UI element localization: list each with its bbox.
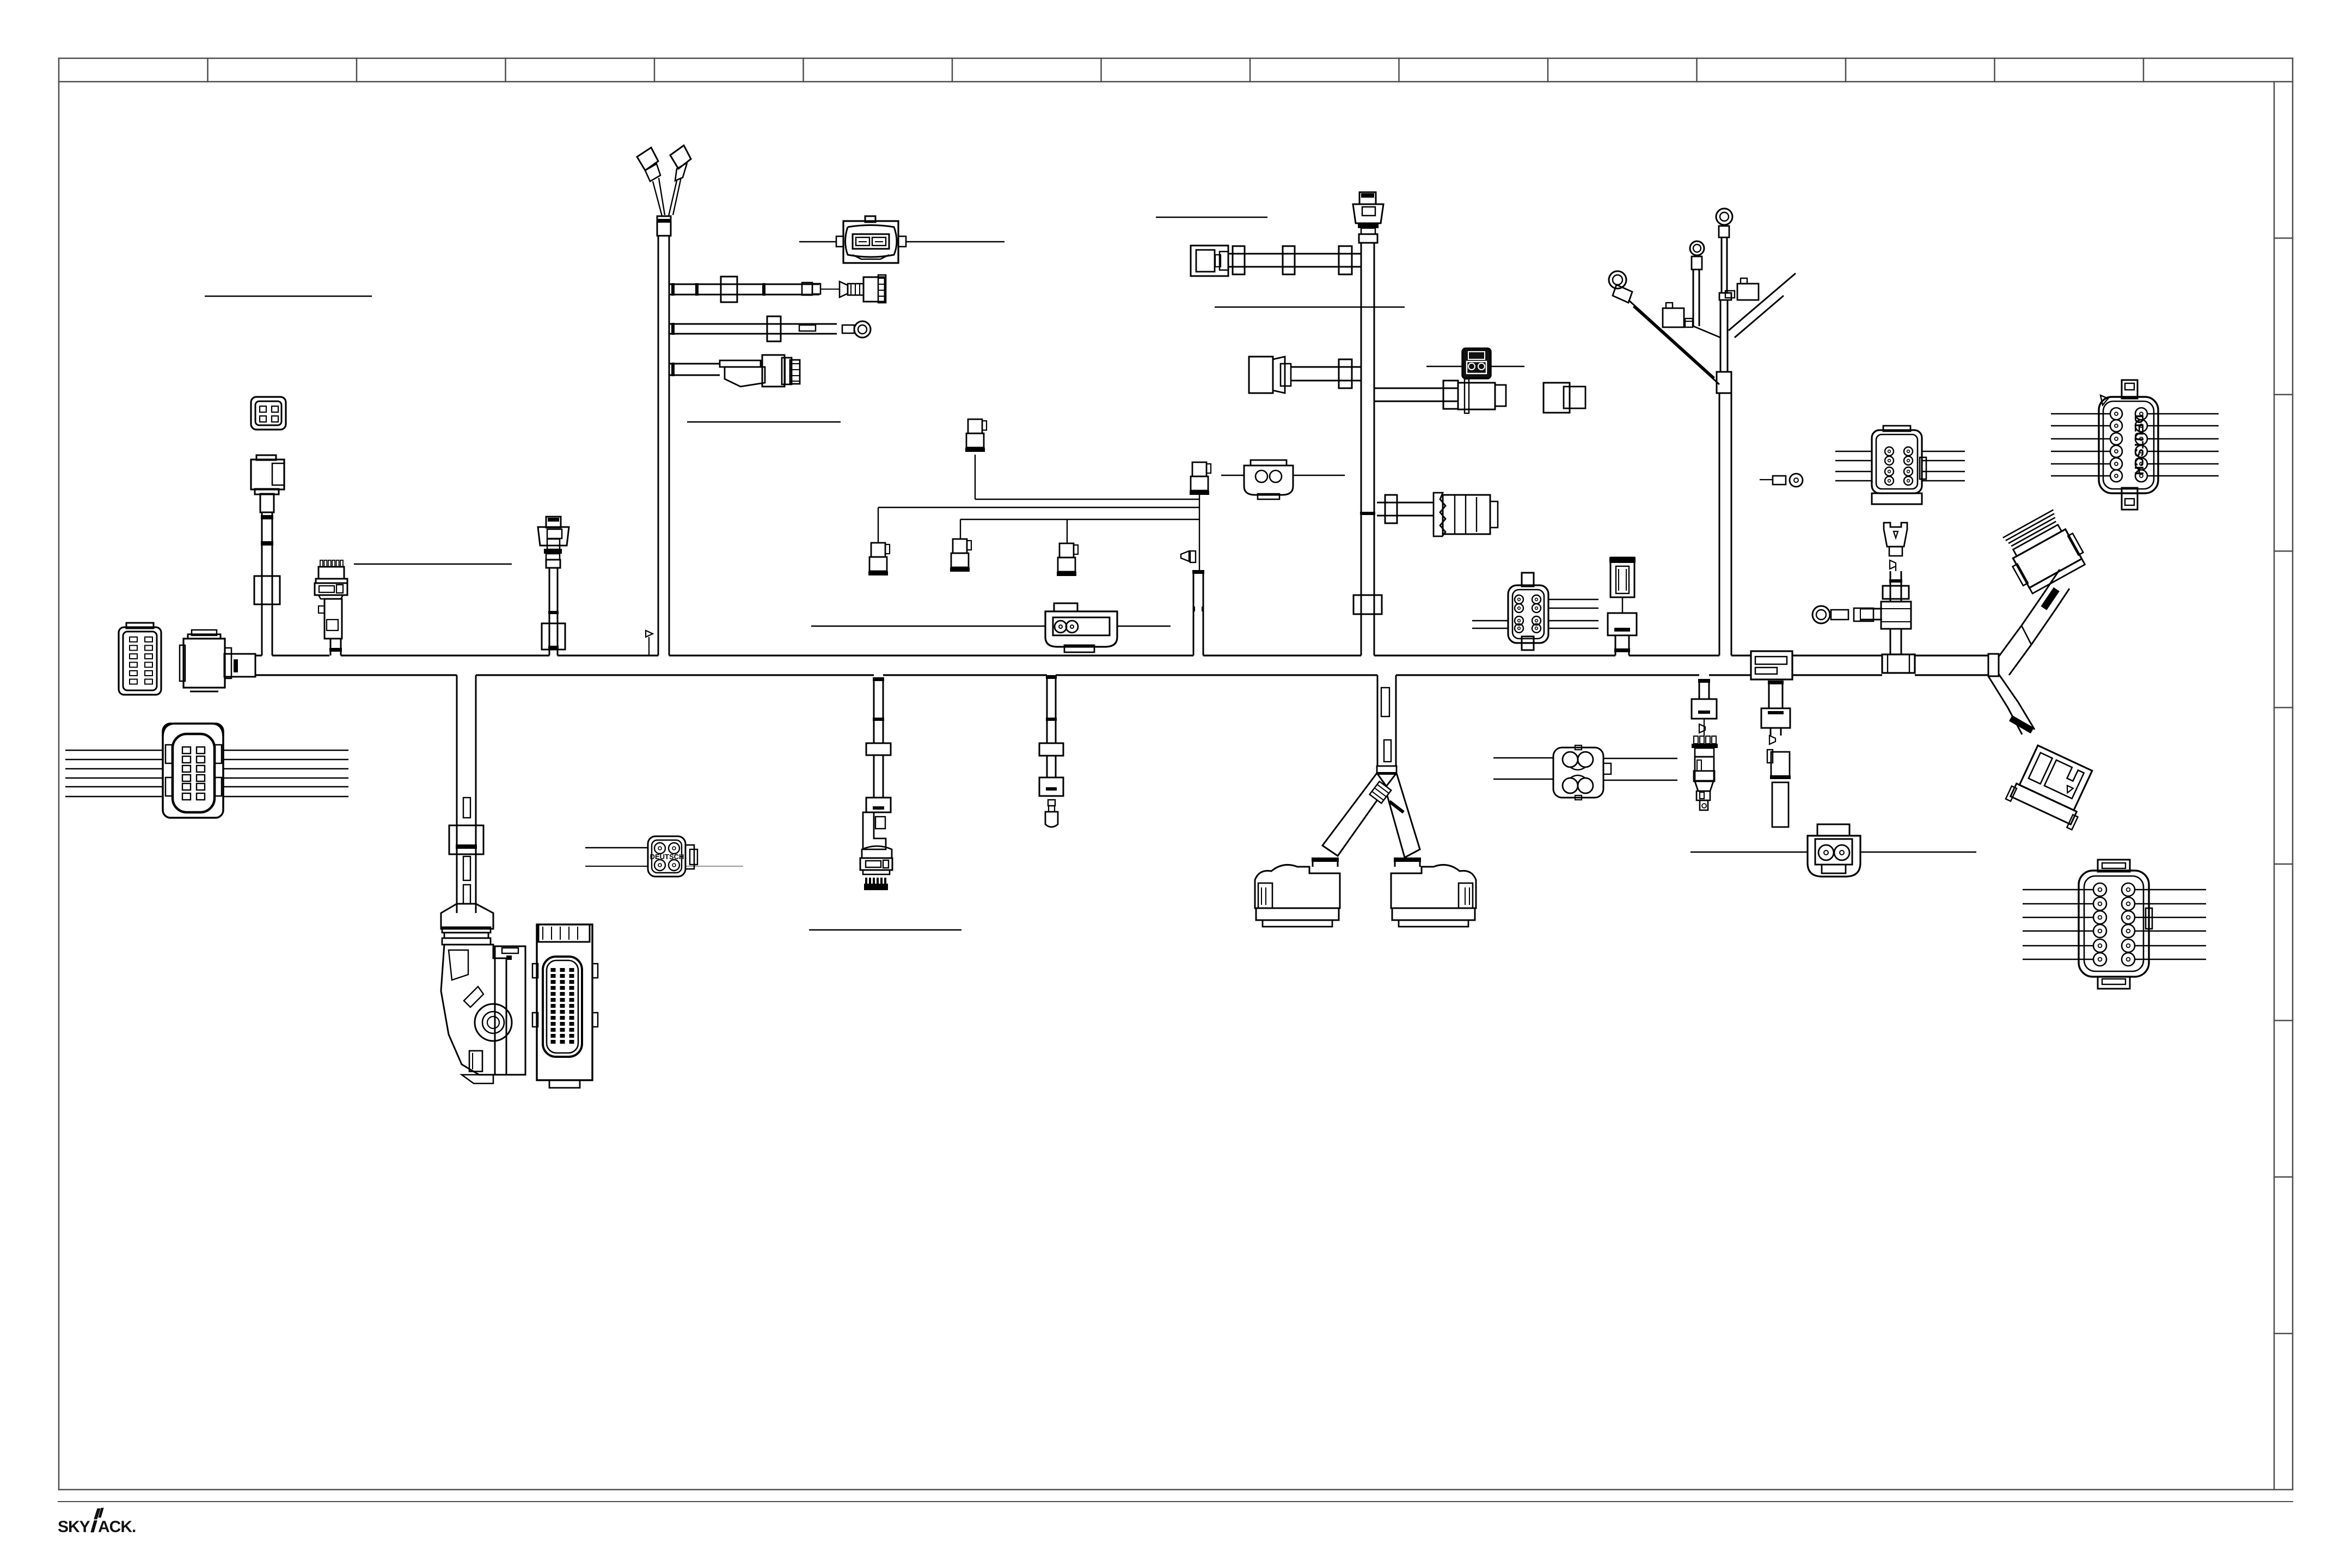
branch B1 ignition coil connector with square cap S1 bbox=[251, 397, 286, 656]
connector A (12-pin MX150, far left of node) bbox=[119, 623, 161, 695]
svg-text:SKY: SKY bbox=[58, 1518, 90, 1536]
connector P12b 12-pin lower right with wires bbox=[2023, 860, 2206, 989]
callout line top-left bbox=[205, 296, 372, 297]
tee tube to fan connector F1 bbox=[1377, 493, 1498, 536]
branch D1 tube down to ECU bracket bbox=[441, 675, 493, 945]
SKYJACK logo bbox=[58, 1508, 136, 1536]
branch D3 tube to bullet terminal bbox=[1039, 675, 1063, 827]
side tube Hb to lambda plug L1 bbox=[1215, 307, 1405, 393]
connector T2c 2-pin with callout bbox=[1221, 460, 1345, 499]
connector P12 DEUTSCH 12-pin with wires bbox=[2051, 380, 2219, 510]
connector DT4 4-pin DEUTSCH with wires bbox=[585, 836, 743, 877]
H-block junction with wires bbox=[1493, 745, 1677, 800]
svg-text:ACK.: ACK. bbox=[98, 1518, 136, 1536]
Y junction at trunk end bbox=[1988, 569, 2069, 734]
side tube Hc to plug L2 and mate L3 bbox=[1374, 366, 1585, 413]
branch B2 sensor assembly on trunk bbox=[315, 560, 512, 656]
riser sub-branch 2 ground wire with ring terminal bbox=[669, 316, 871, 341]
connector T2a 2-pin tower with callout line bbox=[811, 603, 1171, 652]
branch M1 receptacle stack below trunk bbox=[1692, 679, 1718, 781]
side tube Ha to crank sensor CKP bbox=[1156, 217, 1361, 276]
ECU mounting bracket with boss bbox=[441, 945, 525, 1083]
ground distribution tree with ring terminals bbox=[1609, 209, 1796, 656]
svg-text:DEUTSCH: DEUTSCH bbox=[2132, 414, 2146, 475]
branch R2 tall riser to O2 sensor head bbox=[1353, 192, 1383, 656]
trunk start node box bbox=[224, 654, 255, 677]
branch D2 tube to fuel level sender bbox=[809, 677, 961, 930]
connector P12L (12-pin sealed connector with 6 wires) bbox=[65, 724, 348, 818]
dark 2-pin connector D2pin bbox=[1462, 348, 1491, 378]
small flag clip on trunk bbox=[646, 630, 653, 656]
connector C2pin large 2-terminal with callout bbox=[799, 216, 1004, 263]
branch up J2-stack to trunk at x2200 bbox=[1181, 551, 1204, 656]
branch FH fuse holder stack bbox=[1608, 558, 1637, 656]
branch B3 sensor with tall stalk bbox=[538, 517, 569, 656]
spade terminal pair at top of riser bbox=[637, 145, 691, 236]
connector B (rect connector feeding trunk node) bbox=[180, 630, 231, 691]
connector P8 8-pin with wires bbox=[1835, 426, 1965, 504]
relay R_y below M1 bbox=[1694, 771, 1714, 810]
tee assembly with mini connector and ring lead bbox=[1812, 523, 1915, 673]
connector T2d 2-pin tower with long callout bbox=[1690, 824, 1976, 877]
ring terminal lead left of tee bbox=[1760, 474, 1803, 487]
riser sub-branch 1 tube with clips to mated 2-pin pair bbox=[669, 275, 886, 303]
riser sub-branch 3 to throttle connector assembly bbox=[669, 355, 841, 422]
main harness trunk tube bbox=[255, 656, 1988, 675]
clamp box on trunk with branch D5 stack bbox=[1751, 651, 1792, 827]
connector DT8 8-pin DEUTSCH with wires bbox=[1472, 573, 1598, 650]
svg-text:DEUTSCH: DEUTSCH bbox=[650, 853, 684, 861]
ECU connector 48-pin bbox=[532, 924, 598, 1088]
angled connector A1 upper right bbox=[1998, 507, 2088, 596]
angled connector A2 lower right bbox=[2006, 743, 2098, 830]
Y-branch down to twin injector-pump connectors bbox=[1255, 675, 1476, 927]
branch B4 riser tube bbox=[658, 236, 669, 656]
injector wire bus with five EV1 plugs bbox=[868, 419, 1211, 576]
